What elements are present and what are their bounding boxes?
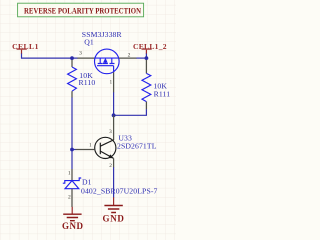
junction node CELL1_2/R111 [145,56,149,60]
U33 labels [117,134,157,151]
wire R111 bottom to gate junction [114,109,147,115]
D1 labels [81,178,158,196]
svg-text:0402_SBR07U20LPS-7: 0402_SBR07U20LPS-7 [81,186,158,195]
svg-text:Q1: Q1 [84,38,94,47]
Q1 gate pin 1 [110,72,114,92]
U33 base pin 1 [75,142,94,149]
svg-text:3: 3 [109,129,112,135]
svg-text:2SD2671TL: 2SD2671TL [117,141,157,150]
wire Q1 pin2 to CELL1_2 junction [136,57,146,59]
diode D1 SBR07U20LPS schottky [63,178,81,189]
title box [18,3,144,17]
ground GND left [62,207,84,231]
svg-text:GND: GND [103,213,125,223]
U33 emitter arrowhead [108,154,113,158]
wire CELL1 to Q1 pin 3 [22,54,78,59]
svg-text:3: 3 [79,50,82,56]
transistor U33 2SD2671TL NPN [95,137,116,158]
svg-text:REVERSE POLARITY PROTECTION: REVERSE POLARITY PROTECTION [24,5,142,15]
svg-text:1: 1 [68,170,71,176]
wire U33 emitter to GND [113,167,115,197]
svg-text:R111: R111 [154,89,171,98]
junction node base/D1 [70,148,74,152]
junction node CELL1/R110 [70,56,74,60]
U33 collector pin 3 [109,115,113,140]
wire base junction to U33 [72,149,76,151]
svg-text:1: 1 [89,142,92,148]
wire CELL1_2 stem [145,54,147,59]
Q1 pin 2 [119,52,137,58]
junction node gate/collector [112,113,116,117]
power port CELL1 [12,42,39,54]
svg-text:R110: R110 [79,78,96,87]
resistor R111 [142,60,170,110]
D1 top pin 1 [68,169,72,180]
power port CELL1_2 [133,42,167,54]
ground GND right [103,197,125,223]
svg-text:1: 1 [110,80,113,86]
svg-text:D1: D1 [82,178,92,187]
resistor R110 [68,60,96,98]
D1 bottom pin 2 [68,189,72,207]
wire Q1 gate to junction [113,92,115,115]
svg-text:2: 2 [109,163,112,169]
svg-text:GND: GND [62,221,84,231]
transistor Q1 SSM3J338R PMOS [95,49,120,74]
Q1 pin 3 [77,50,95,58]
Q1 designator labels [82,30,123,47]
svg-text:2: 2 [128,52,131,58]
U33 emitter pin 2 [109,158,113,169]
svg-text:2: 2 [68,195,71,201]
wire R110 to base junction and D1 [71,97,73,169]
